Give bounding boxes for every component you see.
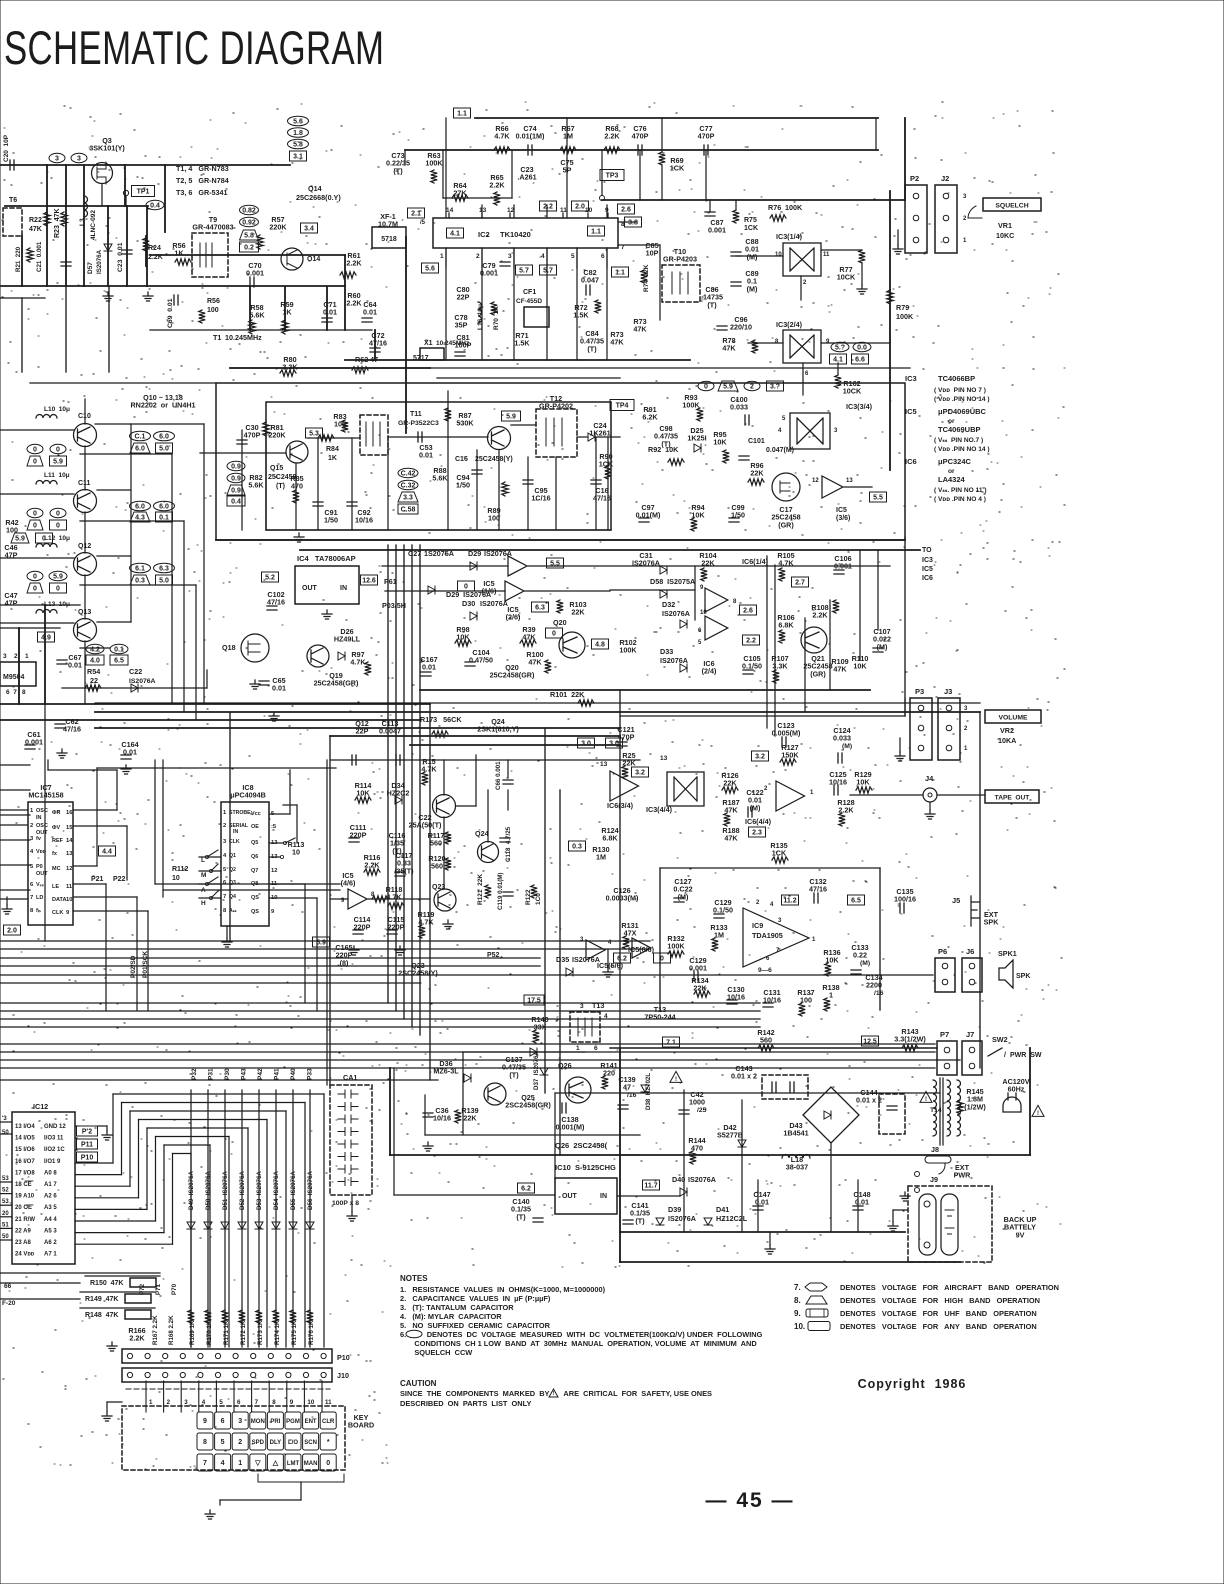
svg-text:3.8: 3.8 [628,220,638,227]
svg-text:NOTES: NOTES [400,1274,428,1283]
svg-text:10.245MHz: 10.245MHz [225,333,262,342]
svg-text:47P: 47P [5,599,18,608]
svg-text:22 A9: 22 A9 [15,1228,31,1234]
svg-text:0: 0 [56,523,60,530]
svg-text:Q7: Q7 [251,868,258,874]
svg-text:μPC4094B: μPC4094B [230,791,266,800]
svg-text:D37 IS2076A: D37 IS2076A [533,1051,540,1090]
svg-text:DESCRIBED ON PARTS LIST ON: DESCRIBED ON PARTS LIST ONLY [400,1399,531,1408]
svg-text:(T): (T) [707,300,717,309]
svg-text:0.1: 0.1 [114,647,124,654]
svg-text:OUT: OUT [562,1193,578,1200]
svg-text:TP3: TP3 [606,173,619,180]
svg-text:IS2076A: IS2076A [632,559,660,568]
svg-text:5.5: 5.5 [550,561,560,568]
svg-text:2.2: 2.2 [543,204,553,211]
svg-text:(M): (M) [747,252,758,261]
svg-text:R121 22K: R121 22K [477,874,484,905]
svg-text:IC6(4/4): IC6(4/4) [745,817,772,826]
svg-text:5: 5 [221,1439,225,1446]
svg-text:2.6: 2.6 [743,608,753,615]
svg-text:4.9: 4.9 [41,635,51,642]
svg-text:L3: L3 [79,218,86,226]
svg-text:5: 5 [223,867,227,873]
svg-text:470: 470 [291,482,303,491]
svg-text:D29: D29 [468,549,481,558]
svg-text:OUT: OUT [36,871,48,877]
svg-text:D32: D32 [662,600,675,609]
svg-text:H: H [201,900,206,907]
svg-text:2: 2 [764,786,768,792]
svg-text:0: 0 [33,511,37,518]
svg-text:SW2: SW2 [992,1035,1008,1044]
svg-text:10: 10 [292,848,300,857]
svg-text:VR1: VR1 [998,221,1012,230]
svg-text:470P: 470P [632,132,649,141]
svg-text:2.0: 2.0 [7,928,17,935]
svg-text:0: 0 [33,447,37,454]
svg-text:22K: 22K [463,1114,477,1123]
svg-text:51: 51 [2,1222,9,1228]
svg-text:IC3: IC3 [905,374,917,383]
svg-text:2: 2 [167,1399,171,1406]
svg-text:L12 10μ: L12 10μ [44,535,70,542]
svg-text:560: 560 [431,862,443,871]
svg-text:5.6K: 5.6K [249,311,265,320]
svg-text:F-20: F-20 [2,1300,16,1307]
svg-text:CA1: CA1 [343,1073,357,1082]
svg-text:47K: 47K [724,834,738,843]
svg-text:7: 7 [30,895,33,901]
svg-text:10: 10 [172,875,180,882]
svg-text:P03/5H: P03/5H [382,601,406,610]
svg-text:P61: P61 [384,577,397,586]
svg-text:R24: R24 [148,245,161,252]
svg-text:5.5: 5.5 [873,495,883,502]
svg-text:IN: IN [600,1193,607,1200]
svg-text:0.4: 0.4 [150,203,160,210]
svg-text:0.82: 0.82 [242,208,256,215]
svg-text:fv: fv [36,836,42,842]
svg-text:9: 9 [826,339,830,345]
svg-text:6.3: 6.3 [535,605,545,612]
svg-text:7: 7 [203,1460,207,1467]
svg-text:MON: MON [251,1419,265,1425]
svg-text:3: 3 [238,1418,242,1425]
svg-text:3.2: 3.2 [755,754,765,761]
svg-text:4: 4 [541,253,545,260]
svg-text:T14: T14 [930,1107,942,1114]
svg-text:6: 6 [601,253,605,260]
svg-text:2: 2 [756,900,760,906]
svg-text:R170 1K: R170 1K [206,1320,213,1345]
svg-text:0.0033(M): 0.0033(M) [606,894,639,903]
svg-text:100K: 100K [785,203,803,212]
svg-text:15 I/O6: 15 I/O6 [15,1147,35,1153]
svg-text:1.5K: 1.5K [573,311,589,320]
svg-text:fx: fx [52,851,58,857]
svg-text:5: 5 [219,1399,223,1406]
svg-text:OE: OE [251,824,259,830]
svg-text:IN: IN [36,815,42,821]
svg-text:DENOTES VOLTAGE FOR UHF: DENOTES VOLTAGE FOR UHF BAND OPERATION [840,1309,1037,1318]
svg-text:Q8: Q8 [251,881,258,887]
svg-text:D50 IS2076A: D50 IS2076A [205,1171,212,1210]
svg-text:10KC: 10KC [996,231,1014,240]
svg-text:6: 6 [223,880,227,886]
svg-text:23 A8: 23 A8 [15,1240,31,1246]
svg-text:22K: 22K [701,559,715,568]
svg-text:8: 8 [775,339,779,345]
svg-text:5.9: 5.9 [723,384,733,391]
svg-text:Vₛₛ: Vₛₛ [36,882,45,888]
svg-text:3: 3 [834,428,838,434]
svg-text:1/50: 1/50 [324,516,338,525]
svg-text:5: 5 [571,253,575,260]
svg-text:T1, 4 GR-N783: T1, 4 GR-N783 [176,164,229,173]
svg-text:or: or [948,468,955,475]
svg-text:47K: 47K [722,344,736,353]
svg-text:9: 9 [700,585,704,591]
svg-text:(3/6): (3/6) [836,515,850,522]
svg-text:IC9: IC9 [752,921,763,930]
svg-text:5.2: 5.2 [265,575,275,582]
svg-text:4: 4 [770,902,774,908]
svg-text:A3 5: A3 5 [44,1205,57,1211]
svg-text:3: 3 [30,836,34,842]
svg-text:A2 6: A2 6 [44,1194,57,1200]
svg-text:(M): (M) [860,960,870,967]
svg-text:/5: /5 [420,220,426,226]
svg-text:REF: REF [52,838,64,844]
svg-text:6 7: 6 7 [6,689,17,696]
svg-text:0: 0 [56,586,60,593]
svg-text:10.: 10. [794,1322,805,1331]
svg-text:( Vₛₛ PIN NO.7 ): ( Vₛₛ PIN NO.7 ) [934,437,983,444]
svg-text:S5277B: S5277B [717,1131,743,1140]
svg-text:I/O1 9: I/O1 9 [44,1159,61,1165]
svg-text:9: 9 [66,910,70,916]
svg-text:IN: IN [340,585,347,592]
svg-text:TAPE OUT: TAPE OUT [995,795,1030,802]
svg-text:20: 20 [2,1211,9,1217]
svg-text:0: 0 [56,447,60,454]
svg-text:11: 11 [66,884,73,890]
svg-text:!: ! [925,1097,927,1103]
svg-text:0.01: 0.01 [422,663,436,672]
svg-text:R22: R22 [29,217,42,224]
svg-text:HZ49LL: HZ49LL [334,635,361,644]
svg-text:5.9: 5.9 [53,459,63,466]
svg-text:(T): (T) [509,1070,519,1079]
svg-text:0.9: 0.9 [231,488,241,495]
svg-text:10: 10 [66,897,72,903]
svg-text:P33: P33 [307,1068,314,1080]
svg-text:3.3: 3.3 [403,495,413,502]
svg-text:0.9: 0.9 [231,464,241,471]
svg-text:— 45 —: — 45 — [705,1489,794,1512]
svg-text:IC12: IC12 [33,1102,48,1111]
svg-text:IS2076A: IS2076A [688,1175,716,1184]
svg-text:(4/6): (4/6) [341,879,356,888]
svg-text:100P x 8: 100P x 8 [332,1200,359,1207]
svg-text:2.2K: 2.2K [346,259,362,268]
svg-text:6.5: 6.5 [114,658,124,665]
svg-text:QS: QS [251,909,259,915]
svg-text:D51 IS2076A: D51 IS2076A [222,1171,229,1210]
svg-text:6.1: 6.1 [135,566,145,573]
svg-text:(T): (T) [635,1216,645,1225]
svg-text:(M): (M) [747,284,758,293]
svg-text:5: 5 [698,640,702,646]
svg-text:TC4066BP: TC4066BP [938,374,975,383]
svg-text:MC145158: MC145158 [28,791,63,800]
svg-text:6.2K: 6.2K [642,413,658,422]
svg-text:10KA: 10KA [998,736,1016,745]
svg-text:1: 1 [576,1045,580,1052]
svg-text:HZ2C2: HZ2C2 [387,789,410,798]
svg-text:△: △ [272,1460,279,1467]
svg-text:16: 16 [66,810,73,816]
svg-text:IC6(1/4): IC6(1/4) [742,557,769,566]
svg-text:( Vᴅᴅ PIN NO 7 ): ( Vᴅᴅ PIN NO 7 ) [934,387,986,394]
svg-text:1: 1 [963,238,967,244]
svg-text:1B4541: 1B4541 [783,1129,808,1138]
svg-text:VOLUME: VOLUME [998,715,1028,722]
svg-text:1C/16: 1C/16 [531,494,550,503]
svg-text:TP4: TP4 [616,403,629,410]
svg-text:P42: P42 [257,1068,264,1080]
svg-text:0.01: 0.01 [68,661,82,670]
svg-text:(2/4): (2/4) [702,667,717,676]
svg-text:1: 1 [238,1460,242,1467]
svg-text:PWR SW: PWR SW [1010,1052,1042,1059]
svg-text:SQUELCH CCW: SQUELCH CCW [400,1348,472,1357]
svg-text:3.?: 3.? [770,384,780,391]
svg-text:2.2K: 2.2K [604,132,620,141]
svg-text:TO: TO [922,547,932,554]
svg-text:SERIAL: SERIAL [229,823,249,829]
svg-text:R174 1K: R174 1K [274,1320,281,1345]
svg-text:ΦV: ΦV [52,825,61,831]
svg-text:15: 15 [66,825,73,831]
svg-text:D35: D35 [556,955,569,964]
svg-text:10K: 10K [356,789,370,798]
svg-text:C21 0.001: C21 0.001 [36,241,43,272]
svg-text:IC3(2/4): IC3(2/4) [776,320,803,329]
svg-text:C.58: C.58 [401,507,416,514]
svg-text:IC5: IC5 [836,507,847,514]
svg-text:1. RESISTANCE VALUES IN O: 1. RESISTANCE VALUES IN OHMS(K=1000, M=1… [400,1285,606,1294]
svg-text:T3, 6 GR-5341: T3, 6 GR-5341 [176,188,228,197]
svg-text:3.1: 3.1 [293,154,303,161]
svg-text:P41: P41 [274,1068,281,1080]
svg-text:0: 0 [326,1460,330,1467]
svg-text:A7 1: A7 1 [44,1252,57,1258]
svg-text:( Vᴅᴅ .PIN NO 14 ): ( Vᴅᴅ .PIN NO 14 ) [934,446,990,453]
svg-text:P72: P72 [139,1283,146,1295]
svg-text:SCN: SCN [304,1440,317,1446]
svg-text:(T): (T) [587,344,597,353]
svg-text:Q6: Q6 [251,854,258,860]
svg-text:1: 1 [440,253,444,260]
svg-text:5.9: 5.9 [53,574,63,581]
svg-text:I/O3 11: I/O3 11 [44,1136,64,1142]
svg-text:IS2076A: IS2076A [96,249,103,274]
svg-text:50: 50 [2,1130,9,1136]
svg-text:C22: C22 [129,667,142,676]
svg-text:10: 10 [775,252,782,258]
svg-text:LMT: LMT [287,1461,300,1467]
svg-text:MAN: MAN [304,1461,318,1467]
svg-text:P30: P30 [224,1068,231,1080]
svg-text:0: 0 [704,384,708,391]
svg-text:P70: P70 [171,1283,178,1295]
svg-text:3: 3 [580,1003,584,1010]
svg-text:1M: 1M [596,853,606,862]
svg-text:(1/2W): (1/2W) [964,1102,986,1111]
svg-text:6.0: 6.0 [135,504,145,511]
svg-text:7: 7 [223,894,226,900]
svg-text:560: 560 [430,839,442,848]
svg-text:J3: J3 [944,687,952,696]
svg-text:4.1: 4.1 [450,231,460,238]
svg-text:8: 8 [272,1399,276,1406]
svg-text:50: 50 [2,1234,9,1240]
svg-text:3: 3 [778,918,782,924]
svg-text:0.01: 0.01 [272,684,286,693]
svg-text:6.3: 6.3 [159,566,169,573]
svg-text:12: 12 [812,478,819,484]
svg-text:2.2K: 2.2K [812,611,828,620]
svg-text:100K: 100K [425,159,443,168]
svg-text:22K: 22K [723,779,737,788]
svg-text:P10: P10 [81,1155,94,1162]
svg-text:9: 9 [290,1399,294,1406]
svg-text:P0: P0 [36,864,43,870]
svg-text:CF1: CF1 [523,289,536,296]
svg-text:4.4: 4.4 [102,849,112,856]
svg-text:5.?: 5.? [835,345,845,352]
svg-text:5.6: 5.6 [293,119,303,126]
svg-text:J5: J5 [952,896,960,905]
svg-text:R84: R84 [326,446,339,453]
svg-text:Q24: Q24 [475,829,489,838]
svg-text:1: 1 [829,991,833,1000]
svg-text:22K: 22K [571,608,585,617]
svg-text:(GR): (GR) [778,520,794,529]
svg-text:35P: 35P [455,321,468,330]
svg-text:38-037: 38-037 [786,1163,808,1172]
svg-text:μPC324C: μPC324C [938,457,972,466]
svg-text:2: 2 [803,280,807,286]
svg-text:3.2: 3.2 [635,770,645,777]
svg-text:C23 0.01: C23 0.01 [117,242,124,272]
svg-text:/25: /25 [697,1107,707,1114]
svg-text:Q14: Q14 [308,184,322,193]
svg-text:Q20: Q20 [553,618,567,627]
svg-text:LE: LE [52,884,59,890]
svg-text:25A(50(T): 25A(50(T) [409,821,442,830]
svg-text:SPD: SPD [252,1440,265,1446]
svg-text:Q15: Q15 [270,465,283,472]
svg-text:66: 66 [4,1283,12,1290]
svg-text:1: 1 [964,746,968,752]
svg-text:10/16: 10/16 [433,1114,451,1123]
svg-text:0: 0 [56,511,60,518]
svg-text:14 I/O5: 14 I/O5 [15,1136,35,1142]
svg-text:9V: 9V [1016,1230,1025,1239]
svg-text:0.3: 0.3 [135,578,145,585]
svg-text:MC: MC [52,866,61,872]
svg-text:0.001: 0.001 [246,269,264,278]
svg-text:(M): (M) [877,642,888,651]
svg-text:6: 6 [805,371,809,377]
svg-text:SPK: SPK [984,918,1000,927]
svg-text:2: 2 [223,823,226,829]
svg-text:GR-4470083: GR-4470083 [192,223,233,232]
svg-text:4LNC-092: 4LNC-092 [90,210,97,240]
svg-text:IC5: IC5 [905,407,917,416]
svg-text:D55 IS2076A: D55 IS2076A [290,1171,297,1210]
svg-text:7P50-244: 7P50-244 [644,1013,675,1022]
svg-text:4: 4 [223,853,227,859]
svg-text:4.2: 4.2 [90,647,100,654]
svg-text:2.1: 2.1 [411,211,421,218]
svg-text:0.033: 0.033 [730,403,748,412]
svg-text:10K: 10K [713,438,727,447]
svg-text:/: / [1004,1052,1006,1059]
svg-text:8: 8 [203,1439,207,1446]
svg-text:10CK: 10CK [837,273,856,282]
svg-text:(M): (M) [842,743,852,750]
svg-text:D57: D57 [87,262,94,274]
svg-text:P31: P31 [208,1068,215,1080]
svg-text:CLK: CLK [52,910,63,916]
svg-text:IC3(4/4): IC3(4/4) [646,805,673,814]
svg-text:13 I/O4: 13 I/O4 [15,1124,35,1130]
svg-text:A6 2: A6 2 [44,1240,57,1246]
svg-text:1K: 1K [328,455,337,462]
svg-text:100: 100 [207,307,219,314]
svg-text:47K: 47K [633,325,647,334]
svg-text::5: :5 [271,824,277,830]
svg-text:5.0: 5.0 [159,578,169,585]
svg-text:(M): (M) [678,892,689,901]
svg-text:▽: ▽ [254,1460,261,1467]
svg-text:11: 11 [560,207,567,214]
svg-text:DENOTES VOLTAGE FOR AIRC: DENOTES VOLTAGE FOR AIRCRAFT BAND OPERAT… [840,1283,1059,1292]
svg-text:R171 1K: R171 1K [223,1320,230,1345]
svg-text:8: 8 [223,908,227,914]
svg-text:1000: 1000 [689,1098,705,1107]
svg-text:R56: R56 [207,298,220,305]
svg-text:2.2K: 2.2K [489,181,505,190]
svg-text:0: 0 [552,631,556,638]
svg-text:I/O2 1C: I/O2 1C [44,1147,65,1153]
svg-text:2: 2 [30,823,33,829]
svg-text:R92 10K: R92 10K [648,445,679,454]
svg-text:IC10 S-9125CHG: IC10 S-9125CHG [555,1163,616,1172]
svg-text:3SK101(Y): 3SK101(Y) [89,144,125,153]
svg-text:8: 8 [30,908,34,914]
svg-text:11: 11 [325,1399,332,1406]
svg-text:PRI: PRI [270,1419,280,1425]
svg-text:220K: 220K [268,431,286,440]
svg-text:IS2076A: IS2076A [660,656,688,665]
svg-text:25C2458(Y): 25C2458(Y) [475,456,513,463]
svg-text:CLR: CLR [322,1419,335,1425]
